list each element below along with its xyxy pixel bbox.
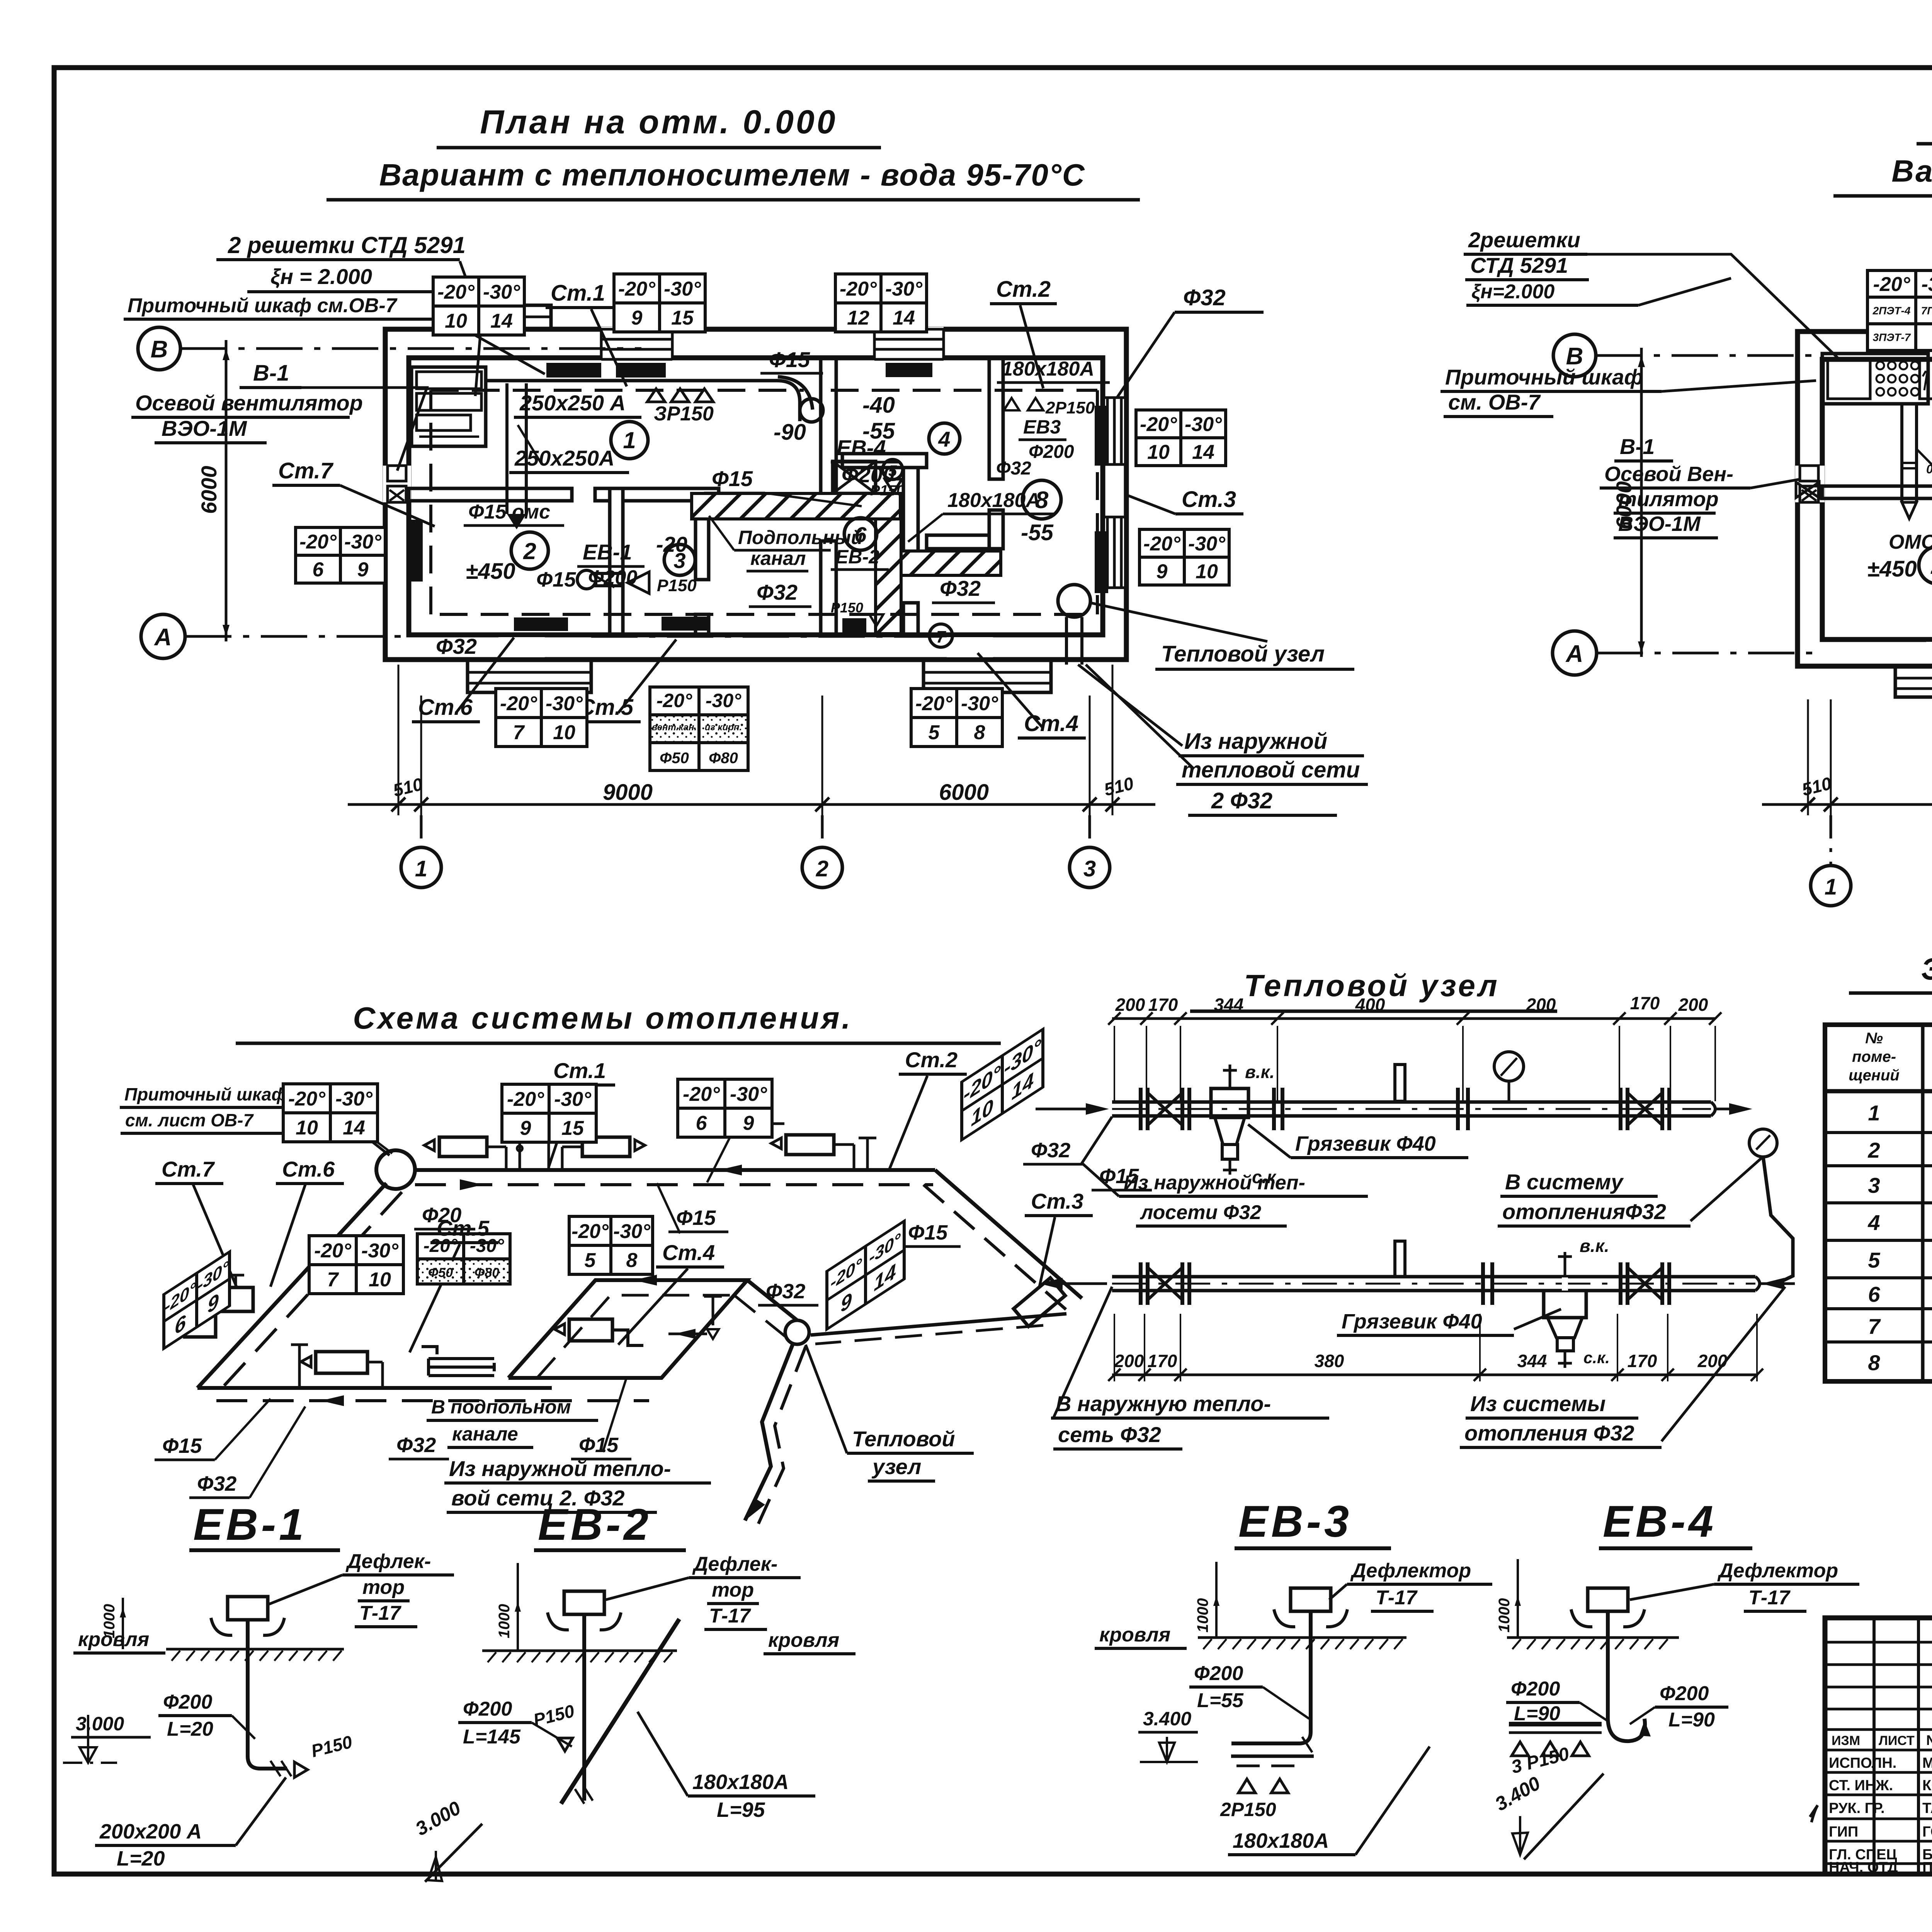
temp table T4 xyxy=(1136,410,1226,466)
svg-text:200: 200 xyxy=(1115,995,1145,1015)
svg-text:-30°: -30° xyxy=(554,1088,592,1111)
bottom train dimension line xyxy=(1112,1374,1758,1376)
EB-3 stack xyxy=(1309,1611,1313,1732)
svg-text:Ф15: Ф15 xyxy=(536,568,576,591)
svg-text:Ст.7: Ст.7 xyxy=(162,1157,215,1181)
scheme radiator St.3 tilted xyxy=(1014,1278,1065,1327)
svg-text:L=20: L=20 xyxy=(167,1718,213,1740)
svg-text:Ф200: Ф200 xyxy=(163,1691,212,1713)
scheme left diagonal pipe xyxy=(197,1183,386,1388)
svg-text:6000: 6000 xyxy=(939,780,989,805)
svg-text:Т-17: Т-17 xyxy=(1376,1587,1418,1609)
svg-text:400: 400 xyxy=(1355,995,1385,1015)
svg-text:ЕВ-3: ЕВ-3 xyxy=(1238,1497,1352,1546)
svg-text:ЕВ-2: ЕВ-2 xyxy=(835,546,879,568)
temp table T5 xyxy=(1139,529,1229,585)
svg-text:Т-17: Т-17 xyxy=(709,1605,751,1627)
scheme drop pipes to external network xyxy=(745,1344,793,1520)
EB-2 180x180 duct diagonal xyxy=(561,1619,679,1804)
svg-text:2: 2 xyxy=(816,856,828,881)
svg-text:ТАРАСОВА: ТАРАСОВА xyxy=(1922,1800,1932,1816)
svg-text:L=95: L=95 xyxy=(717,1798,765,1821)
svg-text:7: 7 xyxy=(513,721,525,744)
svg-text:6: 6 xyxy=(313,559,324,581)
top train inlet arrow xyxy=(1036,1108,1103,1111)
top train outlet arrow xyxy=(1716,1108,1747,1111)
explication table row lines xyxy=(1825,1131,1932,1134)
radiator room8 right wall b xyxy=(1095,531,1108,593)
svg-text:кровля: кровля xyxy=(78,1628,149,1651)
svg-text:7: 7 xyxy=(327,1269,339,1291)
scheme radiator St.7 xyxy=(216,1287,253,1311)
room3 right wall upper xyxy=(696,501,709,580)
svg-text:-40: -40 xyxy=(862,393,895,418)
left plan top wall window 2 xyxy=(874,327,944,360)
svg-text:Р150: Р150 xyxy=(831,600,863,616)
room circle 4 xyxy=(929,423,960,454)
scheme radiator St.1 group a xyxy=(439,1137,487,1156)
temp table T8 with hatched row xyxy=(650,687,748,770)
svg-text:10: 10 xyxy=(296,1117,318,1139)
svg-text:15: 15 xyxy=(561,1117,584,1139)
svg-text:Ф32: Ф32 xyxy=(1183,285,1226,310)
svg-text:Экспликация помещений: Экспликация помещений xyxy=(1921,952,1932,986)
label iz naruzhnoy teplovoy seti xyxy=(1078,665,1182,746)
svg-text:170: 170 xyxy=(1148,995,1178,1015)
svg-text:МЕЩЕРЯКОВА: МЕЩЕРЯКОВА xyxy=(1922,1755,1932,1771)
radiator room4 top xyxy=(886,363,932,377)
svg-text:ЕВ3: ЕВ3 xyxy=(1023,416,1061,438)
svg-text:-30°: -30° xyxy=(1188,533,1226,555)
svg-text:N ДОКУ М.: N ДОКУ М. xyxy=(1926,1732,1932,1748)
top train right valve xyxy=(1619,1088,1622,1130)
scheme table S5 xyxy=(309,1236,403,1294)
svg-text:щений: щений xyxy=(1849,1067,1900,1084)
EB-1 3.000 level mark xyxy=(87,1715,89,1763)
explication table header row xyxy=(1825,1089,1932,1094)
EB-3 deflector xyxy=(1291,1588,1331,1611)
EV-4 duct elbow xyxy=(778,377,813,410)
scheme main top pipe return dashed xyxy=(415,1183,933,1186)
gauge 2 drop line xyxy=(1763,1157,1793,1284)
EB-2 1000 dimension xyxy=(517,1563,519,1651)
svg-text:200: 200 xyxy=(1678,995,1708,1015)
underfloor channel hatched vertical xyxy=(876,519,901,634)
svg-text:кровля: кровля xyxy=(1099,1624,1170,1646)
svg-text:±450: ±450 xyxy=(1867,556,1917,582)
svg-text:9: 9 xyxy=(357,559,369,581)
svg-text:Ф200: Ф200 xyxy=(463,1698,512,1720)
scheme supply cabinet circle xyxy=(376,1150,415,1189)
svg-text:-20°: -20° xyxy=(314,1240,352,1262)
svg-text:Ст.6: Ст.6 xyxy=(418,695,473,720)
svg-text:ПЛАТОНОВ: ПЛАТОНОВ xyxy=(1922,1859,1932,1876)
temp table T1 xyxy=(433,277,524,335)
svg-text:200: 200 xyxy=(1114,1351,1144,1371)
svg-text:Р150: Р150 xyxy=(657,576,697,595)
EB-1 deflector xyxy=(228,1597,268,1620)
svg-text:200: 200 xyxy=(1526,995,1556,1015)
svg-text:3ПЭТ-7: 3ПЭТ-7 xyxy=(1873,332,1911,344)
EB-1 stack xyxy=(246,1620,250,1756)
svg-text:6: 6 xyxy=(696,1112,707,1134)
svg-text:Ст.2: Ст.2 xyxy=(905,1048,957,1072)
svg-text:Грязевик Ф40: Грязевик Ф40 xyxy=(1342,1310,1482,1333)
scheme line radiator to heat unit xyxy=(811,1314,1066,1335)
scheme main top pipe solid xyxy=(415,1168,935,1172)
vent shaft VK with cross xyxy=(833,461,876,493)
leader to cabinet xyxy=(460,261,481,396)
left plan bottom wall opening 1 xyxy=(498,637,545,657)
underfloor channel hatched horizontal xyxy=(692,493,1001,634)
svg-text:Тепловой узел: Тепловой узел xyxy=(1161,641,1325,667)
svg-text:отопления Ф32: отопления Ф32 xyxy=(1464,1421,1634,1445)
supply duct 250x250 vertical xyxy=(505,383,509,514)
EB-4 roof line xyxy=(1507,1636,1679,1639)
svg-text:Т-17: Т-17 xyxy=(359,1602,401,1624)
scheme radiator St.5 bottom xyxy=(316,1352,367,1373)
svg-text:СТД 5291: СТД 5291 xyxy=(1470,253,1568,277)
bottom train inlet arrow right xyxy=(1760,1282,1795,1285)
svg-text:ГИП: ГИП xyxy=(1829,1824,1858,1840)
room circle 6 xyxy=(844,518,877,550)
svg-text:180х180А: 180х180А xyxy=(1002,358,1094,380)
svg-text:Осевой вентилятор: Осевой вентилятор xyxy=(135,391,363,415)
top train flange after trap xyxy=(1272,1088,1276,1130)
svg-text:9: 9 xyxy=(743,1112,754,1134)
EB-4 1000 dimension xyxy=(1517,1559,1519,1638)
scheme table S1 xyxy=(283,1084,378,1142)
bottom train vk stem xyxy=(1564,1256,1566,1291)
svg-text:-30°: -30° xyxy=(1185,413,1222,436)
svg-text:9: 9 xyxy=(520,1117,531,1139)
room3 right wall lower xyxy=(696,614,709,635)
svg-text:1000: 1000 xyxy=(1194,1598,1211,1633)
scheme table S7 xyxy=(569,1216,653,1274)
top train dimension line xyxy=(1112,1017,1716,1020)
svg-text:В систему: В систему xyxy=(1505,1170,1624,1194)
bottom train mud trap inverted xyxy=(1544,1291,1586,1318)
svg-text:в.к.: в.к. xyxy=(1245,1062,1275,1082)
svg-text:180х180А: 180х180А xyxy=(1233,1829,1329,1852)
svg-text:2: 2 xyxy=(1930,553,1932,579)
room circle 5 xyxy=(883,459,903,480)
scheme radiator St.1 group b xyxy=(582,1137,630,1156)
svg-text:-90: -90 xyxy=(774,420,806,445)
svg-text:7ПЭТ-7: 7ПЭТ-7 xyxy=(1921,305,1932,317)
svg-text:170: 170 xyxy=(1630,993,1660,1013)
svg-text:1: 1 xyxy=(415,856,427,881)
svg-text:4: 4 xyxy=(938,427,950,451)
svg-text:Тепловой: Тепловой xyxy=(852,1427,955,1451)
title block left rows xyxy=(1825,1641,1932,1644)
section divider wall xyxy=(821,358,836,502)
svg-text:Ф32: Ф32 xyxy=(940,576,981,600)
EB-3 roof line xyxy=(1198,1636,1406,1639)
svg-text:Из наружной тепло-: Из наружной тепло- xyxy=(449,1456,671,1481)
right fan symbol xyxy=(1796,482,1819,498)
svg-text:4: 4 xyxy=(1867,1211,1880,1235)
svg-text:2ПЭТ-4: 2ПЭТ-4 xyxy=(1872,305,1911,317)
svg-text:200: 200 xyxy=(1697,1351,1728,1371)
svg-text:1000: 1000 xyxy=(1496,1598,1513,1633)
svg-text:10: 10 xyxy=(553,721,575,744)
svg-text:-30°: -30° xyxy=(613,1220,651,1243)
room3 top wall xyxy=(623,488,719,501)
svg-text:в.к.: в.к. xyxy=(1580,1236,1609,1256)
svg-text:3.000: 3.000 xyxy=(76,1713,124,1735)
EB-1 1000 dimension xyxy=(122,1598,124,1649)
svg-text:Ф200: Ф200 xyxy=(1511,1678,1560,1700)
svg-text:Ф15: Ф15 xyxy=(712,466,753,491)
radiator room8 right wall a xyxy=(1095,406,1108,466)
svg-text:7: 7 xyxy=(1868,1314,1881,1338)
svg-text:3: 3 xyxy=(1083,856,1096,881)
EB-1 roof line xyxy=(166,1648,344,1651)
svg-text:15: 15 xyxy=(671,307,694,329)
svg-text:8: 8 xyxy=(1868,1350,1880,1375)
svg-text:-30°: -30° xyxy=(361,1240,399,1262)
svg-text:лосети Ф32: лосети Ф32 xyxy=(1139,1201,1261,1224)
svg-text:14: 14 xyxy=(1192,441,1214,464)
svg-text:Приточный шкаф см.ОВ-7: Приточный шкаф см.ОВ-7 xyxy=(128,294,398,317)
svg-text:12: 12 xyxy=(847,307,869,329)
svg-text:ЛИСТ: ЛИСТ xyxy=(1879,1733,1915,1748)
svg-text:тор: тор xyxy=(712,1579,754,1601)
scheme table S8 tilted xyxy=(827,1221,904,1329)
svg-text:Из системы: Из системы xyxy=(1470,1391,1605,1416)
svg-text:-30°: -30° xyxy=(470,1236,504,1256)
svg-text:2: 2 xyxy=(523,538,536,564)
top train left valve xyxy=(1139,1088,1143,1130)
svg-text:канале: канале xyxy=(452,1423,518,1445)
svg-text:10: 10 xyxy=(369,1269,391,1291)
room7-room8 partition xyxy=(927,535,989,549)
right axis column circle 1 xyxy=(1830,815,1832,865)
leader fan xyxy=(301,388,427,471)
svg-text:2Р150: 2Р150 xyxy=(1220,1799,1276,1820)
svg-text:2решетки: 2решетки xyxy=(1468,228,1580,252)
right axis circle B xyxy=(1553,334,1596,377)
svg-text:поме-: поме- xyxy=(1852,1048,1896,1065)
svg-text:Ф80: Ф80 xyxy=(474,1265,499,1280)
svg-text:сеть Ф32: сеть Ф32 xyxy=(1058,1422,1161,1447)
right vertical dimension 6000 xyxy=(1640,348,1643,657)
svg-text:-30°: -30° xyxy=(483,281,520,303)
svg-text:-20°: -20° xyxy=(1140,413,1177,436)
right leader reshetki xyxy=(1587,254,1839,359)
svg-text:Вариант с электроэнергией: Вариант с электроэнергией xyxy=(1891,154,1932,188)
room circle 3 xyxy=(664,544,695,575)
EB-3 1000 dimension xyxy=(1215,1562,1218,1638)
svg-text:14: 14 xyxy=(490,310,513,332)
temp table T3 xyxy=(835,274,927,332)
svg-text:ЕВ-4: ЕВ-4 xyxy=(1603,1497,1716,1546)
svg-text:ЗР150: ЗР150 xyxy=(654,403,714,425)
svg-text:L=55: L=55 xyxy=(1197,1689,1244,1712)
vertical dimension 6000 xyxy=(225,340,228,641)
room circle 1 xyxy=(611,422,648,459)
svg-text:2 решетки СТД 5291: 2 решетки СТД 5291 xyxy=(228,232,466,258)
axis column circle 3 xyxy=(1088,815,1091,847)
scheme arrows on top line xyxy=(719,1165,742,1175)
svg-text:-20°: -20° xyxy=(683,1083,720,1105)
left plan building outer wall xyxy=(385,329,1126,660)
axis line B xyxy=(180,347,641,350)
svg-text:-30°: -30° xyxy=(1922,273,1932,296)
svg-text:-30°: -30° xyxy=(335,1088,373,1110)
svg-text:Ф32: Ф32 xyxy=(436,634,477,658)
bottom train thermometer well xyxy=(1395,1241,1405,1277)
scheme underfloor loop dashed xyxy=(537,1295,734,1378)
svg-text:1: 1 xyxy=(1825,874,1837,900)
left plan bottom wall opening 2 xyxy=(947,637,993,657)
svg-text:ГОРБАЧЕВ: ГОРБАЧЕВ xyxy=(1922,1824,1932,1840)
explication table frame xyxy=(1825,1025,1932,1381)
svg-text:ξн=2.000: ξн=2.000 xyxy=(1471,281,1554,303)
svg-text:5: 5 xyxy=(929,721,940,744)
EB-4 stack with hook xyxy=(1606,1611,1610,1719)
top train pressure gauge xyxy=(1494,1052,1524,1081)
svg-text:Дефлек-: Дефлек- xyxy=(692,1553,777,1575)
room circle 2 xyxy=(511,532,548,569)
partition room2 door jamb xyxy=(595,488,610,501)
svg-text:отопленияФ32: отопленияФ32 xyxy=(1502,1199,1666,1224)
temp table T2 xyxy=(614,274,705,332)
svg-text:Дефлектор: Дефлектор xyxy=(1717,1560,1838,1582)
top train gauge 2 with needle xyxy=(1749,1129,1777,1157)
svg-text:-20°: -20° xyxy=(299,531,337,553)
bottom train outlet arrow left xyxy=(1043,1282,1107,1285)
temp table T10 xyxy=(1867,270,1932,350)
top train vk stem xyxy=(1229,1065,1231,1088)
svg-text:Дефлек-: Дефлек- xyxy=(345,1550,431,1573)
svg-text:6000: 6000 xyxy=(1612,481,1636,529)
EB-2 stack xyxy=(582,1614,586,1801)
scheme underfloor loop parallelogram solid xyxy=(509,1280,747,1378)
svg-text:Ф80: Ф80 xyxy=(709,750,738,767)
svg-text:9: 9 xyxy=(1156,561,1168,583)
svg-text:2Р150: 2Р150 xyxy=(1045,398,1095,417)
svg-text:В наружную тепло-: В наружную тепло- xyxy=(1056,1391,1271,1416)
room8 west wall upper xyxy=(989,358,1003,479)
funnel symbol room5 xyxy=(885,479,902,493)
scheme table S4 tilted xyxy=(962,1029,1043,1140)
svg-text:344: 344 xyxy=(1214,995,1244,1015)
top train thermometer well xyxy=(1395,1065,1405,1101)
svg-text:Ст.1: Ст.1 xyxy=(551,281,605,306)
svg-text:Ф32: Ф32 xyxy=(766,1280,805,1303)
svg-text:А: А xyxy=(1565,641,1583,667)
svg-text:9: 9 xyxy=(631,307,643,329)
scheme valve stem 2 xyxy=(548,1140,550,1170)
right section partition horizontal xyxy=(842,454,927,468)
right bottom dimension line xyxy=(1762,803,1932,806)
right axis circle A xyxy=(1553,631,1597,675)
underfloor channel hatched branch xyxy=(901,551,1001,575)
bottom train right valve xyxy=(1619,1262,1622,1305)
svg-text:Подпольный: Подпольный xyxy=(738,527,863,548)
svg-text:Приточный шкаф: Приточный шкаф xyxy=(1445,365,1643,389)
svg-text:№: № xyxy=(1865,1030,1883,1047)
svg-text:-30°: -30° xyxy=(885,278,923,300)
svg-text:-30°: -30° xyxy=(664,278,701,300)
svg-text:-20°: -20° xyxy=(915,692,953,715)
right partition room1-room2 xyxy=(1822,486,1932,498)
svg-text:см. лист ОВ-7: см. лист ОВ-7 xyxy=(125,1110,254,1130)
svg-text:ИЗМ: ИЗМ xyxy=(1832,1733,1860,1748)
svg-text:10: 10 xyxy=(445,310,467,332)
svg-text:Ст.6: Ст.6 xyxy=(282,1157,335,1181)
svg-text:из кирп.: из кирп. xyxy=(705,722,742,733)
svg-text:ЕВ-2: ЕВ-2 xyxy=(538,1500,651,1549)
svg-text:3.400: 3.400 xyxy=(1143,1708,1191,1730)
EB-4 deflector xyxy=(1588,1588,1628,1611)
svg-text:-30°: -30° xyxy=(546,692,583,715)
svg-text:3: 3 xyxy=(1868,1173,1880,1197)
svg-text:14: 14 xyxy=(343,1117,365,1139)
bottom dimension line xyxy=(348,803,1155,806)
svg-text:170: 170 xyxy=(1148,1351,1177,1371)
svg-text:-30°: -30° xyxy=(730,1083,767,1105)
svg-text:Ф32: Ф32 xyxy=(396,1434,436,1457)
handwritten tick near title block xyxy=(1810,1805,1818,1822)
scheme loop to heat unit xyxy=(747,1280,797,1320)
svg-text:-20°: -20° xyxy=(1873,273,1911,296)
svg-text:L=90: L=90 xyxy=(1668,1709,1715,1731)
svg-text:-30°: -30° xyxy=(344,531,382,553)
svg-text:узел: узел xyxy=(871,1454,921,1479)
axis circle A xyxy=(141,614,185,658)
svg-text:10: 10 xyxy=(1196,561,1218,583)
svg-text:тепловой сети: тепловой сети xyxy=(1182,757,1360,782)
title block left column verticals xyxy=(1872,1618,1876,1874)
heat unit top pipe train xyxy=(1112,1100,1711,1104)
svg-text:В: В xyxy=(151,336,168,363)
svg-text:РУК. ГР.: РУК. ГР. xyxy=(1829,1800,1885,1816)
scheme right branch diagonal xyxy=(935,1170,1082,1298)
svg-text:Ф200: Ф200 xyxy=(1194,1662,1243,1685)
top train mud trap xyxy=(1211,1088,1248,1117)
svg-text:10: 10 xyxy=(1147,441,1170,464)
svg-text:L=145: L=145 xyxy=(463,1726,521,1748)
svg-text:-20: -20 xyxy=(656,532,687,556)
scheme table S9 tilted xyxy=(164,1252,230,1349)
radiator room3 bottom xyxy=(662,617,710,631)
left plan porch above top wall xyxy=(481,305,551,329)
svg-text:-20°: -20° xyxy=(423,1236,458,1256)
axis column circle 2 xyxy=(821,815,824,847)
scheme radiator St.4 xyxy=(569,1319,612,1341)
svg-text:Грязевик Ф40: Грязевик Ф40 xyxy=(1295,1132,1436,1155)
svg-text:СТ. ИНЖ.: СТ. ИНЖ. xyxy=(1829,1777,1893,1794)
svg-text:5: 5 xyxy=(1868,1248,1880,1272)
svg-text:В-1: В-1 xyxy=(1620,434,1655,459)
svg-text:2 Ф32: 2 Ф32 xyxy=(1211,788,1272,813)
svg-text:Ф50: Ф50 xyxy=(428,1265,453,1280)
axis line A xyxy=(185,635,410,638)
svg-text:КОРНЮШЕНКОВА: КОРНЮШЕНКОВА xyxy=(1922,1777,1932,1794)
svg-text:6: 6 xyxy=(1868,1282,1880,1306)
svg-text:Ф15: Ф15 xyxy=(579,1434,619,1457)
svg-text:с.к.: с.к. xyxy=(1583,1349,1610,1367)
svg-text:1: 1 xyxy=(623,427,636,453)
svg-text:А: А xyxy=(154,624,172,651)
svg-text:Ф200: Ф200 xyxy=(1660,1682,1709,1705)
label 2R150 EV3 xyxy=(1004,398,1043,410)
svg-text:ИСПОЛН.: ИСПОЛН. xyxy=(1829,1755,1896,1771)
svg-text:L=90: L=90 xyxy=(1514,1702,1560,1725)
